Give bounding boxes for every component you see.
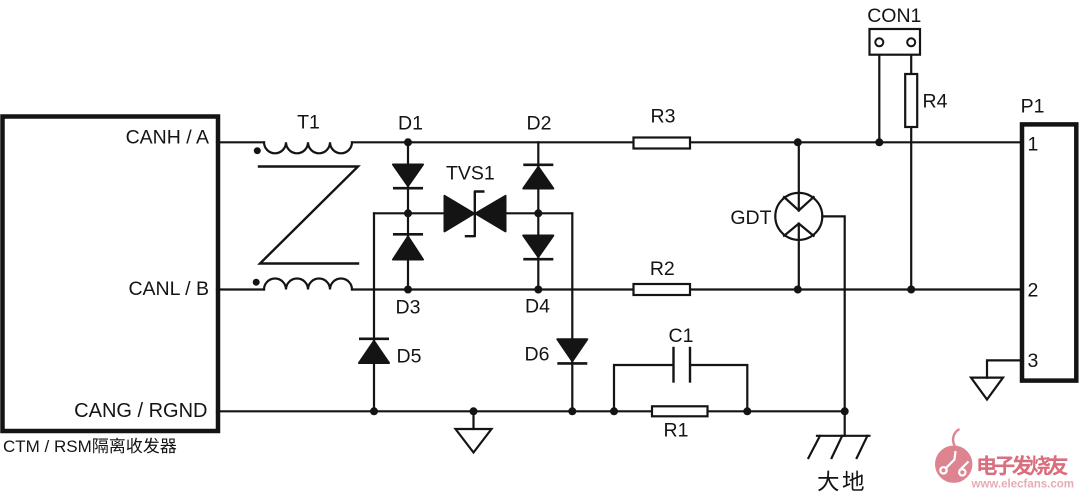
svg-text:D1: D1 [398,113,423,135]
svg-text:D5: D5 [397,346,422,368]
svg-text:GDT: GDT [730,207,771,229]
svg-text:1: 1 [1028,134,1039,156]
svg-text:D2: D2 [527,113,552,135]
svg-text:CON1: CON1 [867,5,921,27]
svg-text:D6: D6 [525,344,550,366]
svg-text:CANG / RGND: CANG / RGND [74,400,207,422]
svg-text:TVS1: TVS1 [446,163,495,185]
svg-text:CANL / B: CANL / B [128,278,209,300]
svg-text:C1: C1 [669,325,694,347]
svg-text:CTM / RSM: CTM / RSM [3,437,92,456]
svg-text:3: 3 [1028,350,1039,372]
svg-text:P1: P1 [1021,96,1045,118]
svg-text:CANH / A: CANH / A [126,127,209,149]
svg-text:R2: R2 [650,258,675,280]
svg-text:T1: T1 [297,112,320,134]
svg-text:R4: R4 [923,91,948,113]
svg-text:D3: D3 [396,297,421,319]
svg-text:www.elecfans.com: www.elecfans.com [971,479,1074,491]
svg-text:D4: D4 [525,296,550,318]
svg-text:R1: R1 [664,420,689,442]
svg-text:2: 2 [1028,280,1039,302]
svg-text:R3: R3 [651,106,676,128]
